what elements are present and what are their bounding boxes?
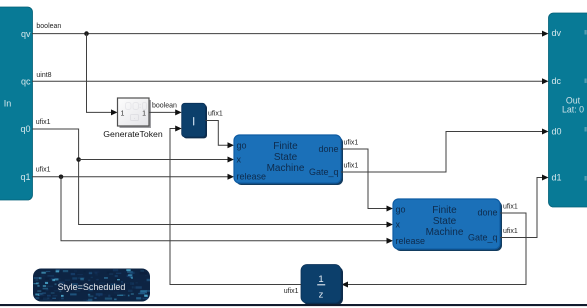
svg-text:State: State (433, 216, 457, 227)
svg-text:Machine: Machine (267, 163, 305, 174)
svg-text:1: 1 (142, 110, 146, 117)
wire q1 branch to FSM2 release (61, 177, 393, 244)
svg-text:Style=Scheduled: Style=Scheduled (58, 282, 126, 292)
bottom border bar (0, 304, 587, 306)
svg-text:uint8: uint8 (36, 72, 51, 79)
svg-text:done: done (477, 208, 497, 218)
svg-text:done: done (318, 144, 338, 154)
signal label ufix1 on unit delay output (284, 288, 299, 295)
wire FSM1 done to FSM2 go (341, 149, 393, 212)
block i (boolean to ufix1 conversion) (182, 103, 207, 138)
svg-text:q1: q1 (20, 172, 30, 182)
svg-text:dv: dv (552, 28, 562, 38)
wire q0 to FSM2 x (32, 129, 393, 228)
svg-text:1: 1 (121, 110, 125, 117)
label GenerateToken (103, 129, 163, 139)
svg-text:boolean: boolean (152, 103, 177, 110)
subsystem FSM1 Finite State Machine (234, 135, 343, 185)
svg-text:ufix1: ufix1 (36, 119, 51, 126)
signal label ufix1 on q0 wire (36, 119, 51, 126)
subsystem Out (549, 13, 587, 207)
wire qv to Out dv (32, 31, 549, 37)
wire unit delay output to i input 2 (170, 126, 301, 285)
signal label ufix1 on FSM1 Gate_q (344, 162, 359, 169)
svg-text:boolean: boolean (36, 23, 61, 30)
svg-text:release: release (237, 172, 267, 182)
block unit delay 1/z (301, 265, 343, 306)
svg-text:Lat: 0: Lat: 0 (562, 105, 584, 115)
wire i to FSM1 go (206, 121, 235, 149)
annotation Style=Scheduled (33, 269, 154, 303)
wire qv branch to GenerateToken (87, 34, 118, 116)
wire FSM2 done to unit delay (342, 213, 527, 288)
svg-text:Finite: Finite (432, 205, 457, 216)
svg-text:z: z (319, 289, 324, 300)
svg-text:dc: dc (552, 76, 562, 86)
svg-text:1: 1 (318, 274, 323, 285)
subsystem FSM2 Finite State Machine (393, 199, 502, 251)
block GenerateToken (118, 98, 152, 128)
wire q1 to FSM1 release (32, 174, 234, 180)
wire FSM2 Gate_q to Out d1 (500, 175, 549, 238)
svg-text:d0: d0 (552, 127, 562, 137)
svg-text:d1: d1 (552, 173, 562, 183)
svg-text:x: x (237, 155, 242, 165)
junction on q1 wire (59, 175, 64, 180)
signal label ufix1 on FSM2 done (503, 204, 518, 211)
signal label ufix1 on FSM1 done (344, 140, 359, 147)
svg-text:In: In (4, 99, 12, 109)
signal label ufix1 on FSM2 Gate_q (503, 228, 518, 235)
junction on qv wire (84, 31, 89, 36)
junction on q0 wire (76, 157, 81, 162)
svg-text:ufix1: ufix1 (208, 111, 223, 118)
svg-text:State: State (274, 152, 298, 163)
svg-text:x: x (396, 220, 401, 230)
svg-text:qc: qc (21, 76, 31, 86)
svg-text:ufix1: ufix1 (36, 167, 51, 174)
svg-text:Gate_q: Gate_q (309, 167, 339, 177)
wire qc to Out dc (32, 78, 549, 84)
signal label boolean on qv wire (36, 23, 61, 30)
signal label ufix1 on q1 wire (36, 167, 51, 174)
svg-text:ufix1: ufix1 (284, 288, 299, 295)
svg-text:ufix1: ufix1 (344, 140, 359, 147)
svg-text:ufix1: ufix1 (344, 162, 359, 169)
svg-text:ufix1: ufix1 (503, 204, 518, 211)
svg-text:go: go (237, 140, 247, 150)
wire GenerateToken to block i (149, 109, 182, 115)
svg-text:ufix1: ufix1 (503, 228, 518, 235)
svg-text:Gate_q: Gate_q (468, 233, 498, 243)
clipped right-side port label fragments on Out (585, 30, 587, 181)
wire FSM1 Gate_q to Out d0 (341, 129, 549, 173)
svg-text:qv: qv (21, 29, 31, 39)
svg-text:release: release (396, 236, 426, 246)
signal label boolean on GenerateToken output (152, 103, 177, 110)
wire q0 branch to FSM1 x (79, 157, 234, 163)
svg-text:GenerateToken: GenerateToken (103, 129, 163, 139)
subsystem In (0, 7, 33, 200)
svg-text:Machine: Machine (426, 227, 464, 238)
signal label uint8 on qc wire (36, 72, 51, 79)
svg-text:go: go (396, 204, 406, 214)
svg-text:q0: q0 (20, 124, 30, 134)
svg-text:Finite: Finite (273, 141, 298, 152)
signal label ufix1 on i output (208, 111, 223, 118)
